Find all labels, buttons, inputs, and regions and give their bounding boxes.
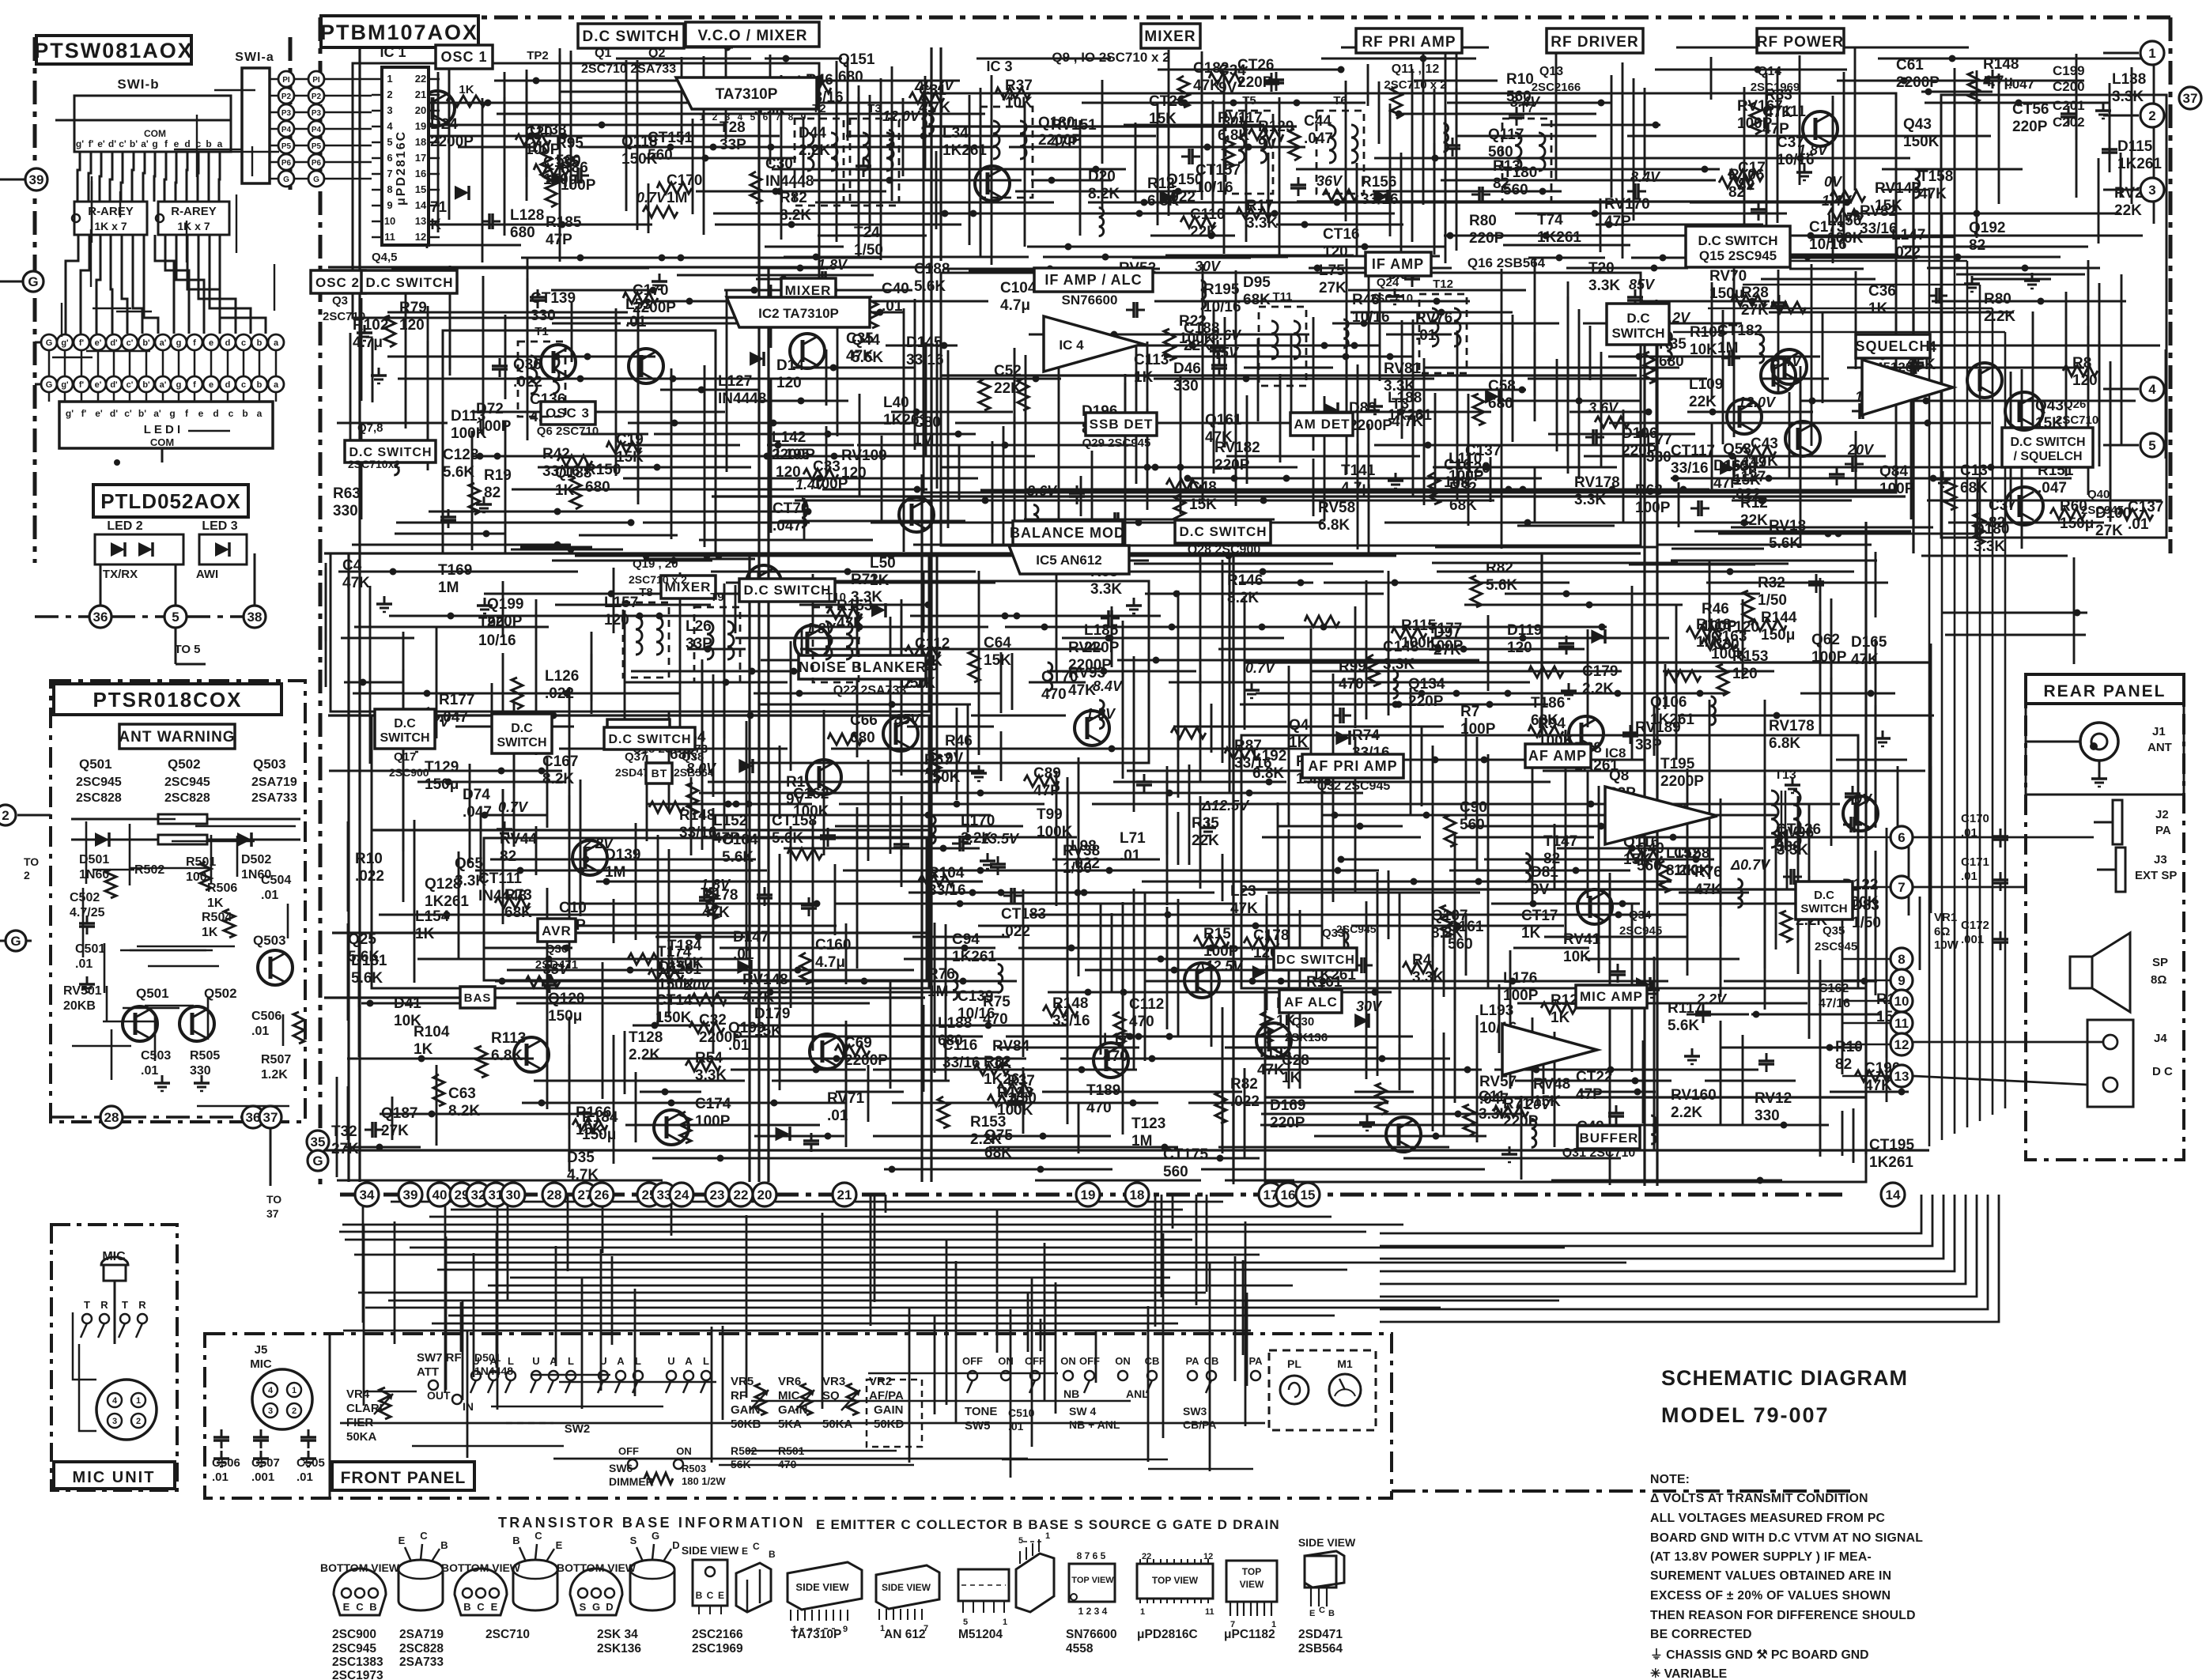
svg-text:2SC900: 2SC900	[389, 766, 429, 779]
svg-text:SIDE VIEW: SIDE VIEW	[882, 1582, 931, 1593]
svg-text:C43: C43	[1751, 436, 1778, 452]
svg-text:1K x 7: 1K x 7	[177, 220, 210, 232]
svg-text:680: 680	[510, 225, 535, 241]
svg-text:MIXER: MIXER	[1144, 28, 1196, 45]
svg-text:470: 470	[1129, 1014, 1154, 1030]
svg-text:TOP VIEW: TOP VIEW	[1152, 1575, 1199, 1586]
svg-text:T10: T10	[825, 591, 846, 604]
svg-text:d': d'	[110, 408, 118, 419]
svg-text:IC5 AN612: IC5 AN612	[1036, 553, 1101, 568]
svg-text:100K: 100K	[1179, 330, 1215, 347]
svg-text:μPD2816C: μPD2816C	[395, 130, 408, 206]
svg-text:Q15 2SC945: Q15 2SC945	[1699, 248, 1777, 263]
svg-text:17: 17	[415, 152, 426, 164]
svg-text:T74: T74	[1537, 212, 1563, 228]
svg-text:GAIN: GAIN	[731, 1403, 761, 1417]
svg-text:1 2 3 4: 1 2 3 4	[1078, 1606, 1108, 1617]
svg-text:12: 12	[1894, 1037, 1909, 1052]
svg-text:4: 4	[268, 1386, 274, 1395]
svg-text:C: C	[535, 1530, 542, 1542]
svg-text:C161: C161	[1448, 919, 1484, 935]
svg-text:C167: C167	[542, 753, 578, 770]
svg-text:7: 7	[1898, 880, 1905, 895]
svg-text:SSB DET: SSB DET	[1090, 417, 1154, 432]
svg-text:T158: T158	[1919, 168, 1953, 185]
svg-text:LED 3: LED 3	[202, 519, 237, 533]
svg-text:3.6V: 3.6V	[1588, 400, 1619, 416]
svg-text:68K: 68K	[504, 904, 532, 921]
svg-text:8.2K: 8.2K	[542, 771, 574, 787]
svg-text:G: G	[10, 934, 21, 949]
svg-text:3: 3	[268, 1406, 273, 1416]
svg-text:100P: 100P	[476, 418, 512, 435]
svg-text:FRONT PANEL: FRONT PANEL	[341, 1469, 467, 1487]
svg-text:150μ: 150μ	[2060, 515, 2094, 532]
svg-text:2.2K: 2.2K	[1984, 308, 2015, 325]
svg-text:SW6: SW6	[609, 1462, 633, 1474]
svg-text:D502: D502	[241, 853, 271, 866]
svg-text:1K: 1K	[207, 897, 224, 910]
svg-text:AM DET: AM DET	[1294, 417, 1350, 432]
svg-text:T9: T9	[710, 591, 724, 604]
svg-text:L40: L40	[883, 395, 909, 411]
svg-text:CT175: CT175	[1163, 1146, 1208, 1163]
svg-text:R82: R82	[780, 190, 807, 206]
svg-text:C199: C199	[2053, 63, 2085, 78]
svg-text:.01: .01	[1120, 848, 1141, 864]
svg-text:6.8K: 6.8K	[1318, 517, 1350, 534]
svg-text:R54: R54	[695, 1050, 723, 1067]
svg-text:2200P: 2200P	[844, 1052, 888, 1069]
svg-text:2SA719: 2SA719	[251, 776, 297, 789]
svg-text:e: e	[209, 380, 213, 390]
svg-text:2SD471: 2SD471	[535, 958, 578, 972]
svg-text:D.C: D.C	[1626, 311, 1649, 326]
svg-text:TOP VIEW: TOP VIEW	[1071, 1576, 1114, 1585]
svg-text:9: 9	[801, 111, 806, 123]
svg-text:Q3: Q3	[332, 294, 348, 308]
svg-text:R144: R144	[1761, 610, 1797, 626]
svg-text:C: C	[420, 1530, 428, 1542]
svg-text:L75: L75	[1319, 262, 1345, 279]
svg-text:5: 5	[172, 610, 179, 625]
svg-text:10K: 10K	[1563, 949, 1591, 965]
svg-text:C174: C174	[695, 1096, 731, 1112]
svg-text:1K261: 1K261	[1537, 229, 1581, 246]
svg-text:PTSW081AOX: PTSW081AOX	[34, 39, 194, 62]
svg-text:P3: P3	[281, 109, 292, 118]
svg-text:12: 12	[415, 231, 426, 243]
svg-text:2SK 34: 2SK 34	[597, 1628, 638, 1641]
svg-text:a': a'	[141, 138, 149, 149]
svg-text:IC 1: IC 1	[380, 44, 406, 60]
svg-text:21: 21	[415, 89, 426, 100]
svg-text:T123: T123	[1131, 1116, 1165, 1132]
svg-text:1.2K: 1.2K	[261, 1068, 288, 1082]
svg-text:6: 6	[763, 111, 769, 123]
svg-text:TRANSISTOR BASE INFORMATIO: TRANSISTOR BASE INFORMATION	[498, 1515, 806, 1531]
svg-text:L193: L193	[1479, 1002, 1513, 1019]
svg-text:Q84: Q84	[1879, 463, 1908, 480]
svg-text:2200P: 2200P	[772, 447, 815, 463]
svg-text:.047: .047	[463, 804, 492, 821]
svg-text:2SC1973: 2SC1973	[332, 1669, 383, 1680]
svg-text:ANL: ANL	[1126, 1387, 1149, 1400]
svg-text:T128: T128	[629, 1029, 663, 1046]
svg-text:BE CORRECTED: BE CORRECTED	[1650, 1628, 1752, 1641]
svg-text:2SC2166: 2SC2166	[1532, 81, 1581, 94]
svg-text:14: 14	[1886, 1187, 1901, 1202]
svg-text:SW 4: SW 4	[1069, 1405, 1096, 1418]
svg-text:NB: NB	[1063, 1387, 1079, 1400]
svg-text:SWITCH: SWITCH	[497, 736, 546, 749]
svg-text:c': c'	[124, 408, 132, 419]
svg-text:2SC2166: 2SC2166	[692, 1628, 743, 1641]
svg-text:PL: PL	[1287, 1357, 1301, 1370]
svg-text:40: 40	[433, 1187, 448, 1202]
svg-text:1K: 1K	[202, 926, 218, 939]
svg-text:3: 3	[112, 1417, 117, 1426]
svg-text:13: 13	[1894, 1069, 1909, 1084]
svg-text:VIEW: VIEW	[1240, 1579, 1264, 1590]
svg-text:C17: C17	[1738, 160, 1766, 176]
svg-text:68K: 68K	[1449, 497, 1477, 514]
svg-text:1.8V: 1.8V	[818, 257, 848, 273]
svg-text:CT22: CT22	[1576, 1069, 1612, 1085]
svg-text:2SC710 x 2: 2SC710 x 2	[1384, 78, 1446, 92]
svg-text:Δ12.5V: Δ12.5V	[1195, 958, 1244, 974]
svg-text:9: 9	[843, 1625, 848, 1634]
svg-text:2SC945: 2SC945	[1336, 923, 1377, 935]
svg-text:a': a'	[160, 338, 167, 348]
svg-text:R80: R80	[1984, 291, 2011, 308]
svg-text:AWI: AWI	[196, 568, 218, 581]
svg-text:Q35: Q35	[1823, 924, 1845, 938]
svg-text:8.2K: 8.2K	[448, 1103, 480, 1119]
svg-text:330: 330	[190, 1064, 211, 1078]
svg-text:d: d	[225, 338, 231, 348]
svg-text:CT16: CT16	[1323, 226, 1359, 243]
svg-text:L128: L128	[510, 207, 544, 224]
svg-text:C104: C104	[1000, 280, 1037, 296]
svg-text:2.2K: 2.2K	[1582, 681, 1614, 697]
svg-text:SWI-b: SWI-b	[117, 77, 159, 92]
svg-text:CT17: CT17	[1521, 908, 1558, 924]
svg-text:f: f	[193, 380, 196, 390]
svg-text:A: A	[685, 1355, 693, 1367]
svg-text:470: 470	[1041, 686, 1067, 703]
svg-text:11: 11	[1205, 1607, 1214, 1617]
svg-text:g: g	[152, 138, 157, 149]
svg-text:1: 1	[1140, 1607, 1145, 1617]
svg-text:COM: COM	[144, 128, 166, 139]
svg-text:2SC710 x 2: 2SC710 x 2	[629, 573, 687, 586]
svg-text:2SA733: 2SA733	[399, 1655, 444, 1669]
svg-text:D: D	[672, 1539, 679, 1551]
svg-text:C110: C110	[1190, 206, 1225, 223]
svg-text:1/50: 1/50	[1758, 592, 1787, 609]
svg-text:0V: 0V	[1824, 174, 1843, 190]
svg-text:R503: R503	[682, 1463, 706, 1474]
svg-text:2: 2	[2, 808, 9, 823]
svg-text:1K261: 1K261	[952, 949, 996, 965]
svg-text:1K: 1K	[1289, 734, 1309, 751]
svg-text:5.6K: 5.6K	[1668, 1017, 1699, 1034]
svg-text:T6: T6	[1333, 94, 1347, 108]
svg-text:EXT SP: EXT SP	[2135, 869, 2177, 882]
svg-text:2: 2	[387, 89, 392, 100]
svg-text:R28: R28	[1741, 285, 1769, 301]
svg-text:10K: 10K	[1690, 342, 1717, 358]
svg-text:2: 2	[292, 1406, 297, 1416]
svg-text:3: 3	[387, 104, 392, 116]
svg-text:RF PRI AMP: RF PRI AMP	[1362, 34, 1456, 51]
svg-text:R13: R13	[1493, 158, 1520, 175]
svg-text:C58: C58	[1488, 378, 1516, 395]
svg-text:Q503: Q503	[253, 933, 286, 948]
svg-text:C179: C179	[1582, 663, 1618, 680]
svg-text:8.4V: 8.4V	[1630, 169, 1661, 185]
svg-text:L: L	[703, 1355, 709, 1367]
svg-text:L138: L138	[2112, 71, 2146, 88]
svg-text:C182: C182	[1193, 60, 1229, 77]
svg-text:150μ: 150μ	[1709, 285, 1743, 302]
svg-text:85V: 85V	[894, 712, 921, 727]
svg-text:8.2K: 8.2K	[1088, 186, 1120, 202]
svg-text:CT56: CT56	[2012, 101, 2049, 118]
svg-text:3.3K: 3.3K	[1090, 581, 1122, 598]
svg-text:8.4V: 8.4V	[1093, 678, 1124, 694]
svg-text:D.C: D.C	[511, 722, 533, 735]
svg-text:.01: .01	[141, 1064, 158, 1078]
svg-text:C160: C160	[815, 937, 851, 953]
svg-text:c': c'	[127, 380, 134, 390]
svg-text:220P: 220P	[1408, 693, 1444, 710]
svg-text:Q6 2SC710: Q6 2SC710	[537, 425, 599, 438]
svg-text:C19: C19	[616, 432, 644, 448]
svg-text:470: 470	[983, 1011, 1008, 1028]
svg-text:1K261: 1K261	[1869, 1154, 1913, 1171]
svg-text:R148: R148	[679, 807, 715, 824]
svg-text:27K: 27K	[1434, 642, 1461, 659]
svg-text:R148: R148	[1983, 56, 2019, 73]
svg-text:Q16 2SB564: Q16 2SB564	[1468, 255, 1546, 270]
svg-text:5: 5	[963, 1618, 968, 1627]
svg-text:D.C SWITCH: D.C SWITCH	[1698, 233, 1777, 248]
svg-text:34: 34	[360, 1187, 375, 1202]
svg-text:R177: R177	[439, 692, 474, 708]
svg-text:330: 330	[1755, 1108, 1780, 1124]
svg-text:Δ VOLTS AT TRANSMIT CONDITION: Δ VOLTS AT TRANSMIT CONDITION	[1650, 1492, 1868, 1505]
svg-text:T195: T195	[1660, 756, 1695, 772]
svg-text:OUT: OUT	[427, 1389, 451, 1402]
svg-text:21: 21	[837, 1187, 852, 1202]
svg-text:220P: 220P	[487, 613, 523, 630]
svg-text:ATT: ATT	[417, 1365, 439, 1379]
svg-text:Δ0.7V: Δ0.7V	[1730, 857, 1771, 873]
svg-text:D.C SWITCH: D.C SWITCH	[583, 28, 680, 45]
svg-text:3.3K: 3.3K	[695, 1067, 727, 1084]
svg-text:D.C SWITCH: D.C SWITCH	[1179, 524, 1267, 539]
svg-text:3.3K: 3.3K	[2112, 89, 2144, 105]
svg-text:470: 470	[1339, 676, 1364, 693]
svg-text:.01: .01	[75, 957, 93, 971]
svg-text:IC 4: IC 4	[1059, 338, 1084, 353]
svg-text:C170: C170	[667, 172, 702, 189]
svg-text:TO 5: TO 5	[174, 643, 200, 656]
svg-text:f': f'	[79, 338, 85, 348]
svg-text:D.C SWITCH: D.C SWITCH	[365, 275, 453, 290]
svg-text:E: E	[556, 1539, 563, 1551]
svg-text:5: 5	[2148, 438, 2155, 453]
svg-text:100P: 100P	[561, 177, 596, 194]
svg-text:GAIN: GAIN	[874, 1403, 904, 1417]
svg-text:R19: R19	[484, 467, 512, 484]
svg-text:20V: 20V	[1847, 442, 1875, 458]
svg-text:2SC945: 2SC945	[332, 1642, 376, 1655]
svg-text:27K: 27K	[381, 1123, 409, 1139]
svg-text:L71: L71	[1120, 830, 1146, 847]
svg-text:9V: 9V	[945, 750, 964, 767]
svg-text:Q43: Q43	[1903, 116, 1932, 133]
svg-text:1: 1	[1045, 1531, 1050, 1541]
svg-text:100P: 100P	[1503, 987, 1539, 1004]
svg-text:220P: 220P	[1469, 230, 1505, 247]
svg-text:2SC1969: 2SC1969	[1751, 81, 1800, 94]
svg-text:C504: C504	[261, 874, 291, 887]
svg-text:330: 330	[333, 503, 358, 519]
svg-text:AN 612: AN 612	[884, 1628, 926, 1641]
svg-text:220P: 220P	[1214, 457, 1250, 474]
svg-text:D20: D20	[1088, 168, 1116, 185]
svg-text:2.2K: 2.2K	[1671, 1104, 1702, 1121]
svg-text:R113: R113	[491, 1030, 526, 1047]
svg-text:R8: R8	[2072, 355, 2091, 372]
svg-text:47K: 47K	[846, 348, 874, 364]
svg-text:T174: T174	[657, 944, 692, 961]
svg-text:1.8V: 1.8V	[1798, 142, 1829, 158]
svg-text:150K: 150K	[658, 976, 694, 993]
svg-text:27K: 27K	[1319, 280, 1347, 296]
svg-text:120: 120	[776, 375, 802, 391]
svg-text:ANT WARNING: ANT WARNING	[119, 729, 235, 746]
svg-text:220P: 220P	[1503, 1113, 1539, 1130]
svg-text:.01: .01	[251, 1025, 269, 1038]
svg-text:6.8K: 6.8K	[491, 1048, 523, 1064]
svg-text:2200P: 2200P	[1349, 417, 1392, 434]
svg-text:DC SWITCH: DC SWITCH	[1276, 953, 1355, 967]
svg-text:Q30: Q30	[1292, 1015, 1314, 1029]
svg-text:PA: PA	[2155, 824, 2171, 837]
svg-text:2SC828: 2SC828	[76, 791, 122, 805]
svg-text:1K261: 1K261	[2117, 156, 2162, 172]
svg-text:28: 28	[547, 1187, 562, 1202]
svg-text:2SC1969: 2SC1969	[692, 1642, 743, 1655]
svg-text:9: 9	[1898, 973, 1905, 988]
svg-text:Q11 , 12: Q11 , 12	[1392, 62, 1440, 76]
svg-text:M1: M1	[1337, 1357, 1353, 1370]
svg-text:R87: R87	[1234, 738, 1262, 754]
svg-text:.01: .01	[2128, 516, 2149, 533]
svg-text:AF PRI AMP: AF PRI AMP	[1308, 758, 1397, 774]
svg-text:BAS: BAS	[464, 991, 492, 1005]
svg-text:3.3K: 3.3K	[1574, 492, 1606, 508]
svg-text:15: 15	[1301, 1187, 1316, 1202]
svg-text:2SB564: 2SB564	[1298, 1642, 1343, 1655]
svg-text:12.0V: 12.0V	[1738, 395, 1777, 410]
svg-text:5.6K: 5.6K	[443, 464, 474, 481]
svg-text:C: C	[1319, 1606, 1325, 1615]
svg-text:g': g'	[61, 338, 69, 348]
svg-text:R115: R115	[1401, 617, 1437, 634]
svg-text:Q134: Q134	[1408, 676, 1445, 693]
svg-text:150μ: 150μ	[548, 1008, 582, 1025]
svg-text:D501: D501	[79, 853, 109, 866]
svg-text:33/16: 33/16	[1234, 755, 1272, 772]
svg-text:560: 560	[1163, 1164, 1188, 1180]
svg-text:5.6K: 5.6K	[1769, 535, 1800, 552]
svg-text:RV71: RV71	[827, 1090, 865, 1107]
svg-text:22K: 22K	[994, 380, 1022, 397]
svg-text:Q187: Q187	[381, 1105, 417, 1122]
svg-text:R195: R195	[1203, 281, 1240, 298]
svg-text:BALANCE MOD: BALANCE MOD	[1010, 525, 1125, 541]
svg-text:T13: T13	[1774, 768, 1796, 782]
svg-text:100K: 100K	[1674, 863, 1710, 879]
svg-text:C171: C171	[1961, 855, 1989, 869]
svg-text:2SC710: 2SC710	[1370, 292, 1413, 305]
svg-text:120: 120	[2072, 372, 2098, 389]
svg-text:T5: T5	[1242, 94, 1256, 108]
svg-text:D35: D35	[567, 1150, 595, 1166]
svg-text:f': f'	[79, 380, 85, 390]
svg-text:100P: 100P	[695, 1113, 731, 1130]
svg-text:1K: 1K	[1521, 925, 1541, 942]
svg-text:22: 22	[734, 1187, 749, 1202]
svg-text:10K: 10K	[394, 1013, 421, 1029]
svg-text:Q65: Q65	[455, 855, 483, 872]
svg-text:Q501: Q501	[136, 986, 169, 1001]
svg-text:f: f	[193, 338, 196, 348]
svg-text:C170: C170	[1961, 812, 1989, 825]
svg-text:68K: 68K	[1243, 292, 1271, 308]
svg-text:13: 13	[415, 215, 426, 227]
svg-text:D165: D165	[1851, 634, 1887, 651]
svg-text:C35: C35	[846, 330, 874, 347]
svg-text:22K: 22K	[1190, 224, 1218, 240]
svg-text:1M: 1M	[1696, 634, 1717, 651]
svg-text:Q106: Q106	[1650, 694, 1687, 711]
svg-text:μPC1182: μPC1182	[1224, 1628, 1275, 1641]
svg-text:220P: 220P	[1622, 443, 1657, 459]
svg-text:33P: 33P	[686, 636, 712, 652]
svg-text:47K: 47K	[1765, 104, 1792, 121]
svg-text:10: 10	[1894, 994, 1909, 1009]
svg-text:OFF: OFF	[1025, 1355, 1045, 1367]
svg-text:.01: .01	[625, 314, 647, 330]
svg-text:NOISE BLANKER: NOISE BLANKER	[799, 659, 927, 675]
svg-text:BUFFER: BUFFER	[1580, 1131, 1639, 1146]
svg-text:12.0V: 12.0V	[882, 108, 921, 124]
svg-text:SIDE VIEW: SIDE VIEW	[1298, 1536, 1356, 1549]
svg-text:3.3K: 3.3K	[1383, 656, 1415, 673]
svg-text:b: b	[257, 380, 263, 390]
svg-text:680: 680	[585, 479, 610, 496]
svg-text:SUREMENT VALUES OBTAINED AR: SUREMENT VALUES OBTAINED ARE IN	[1650, 1569, 1891, 1583]
svg-text:D72: D72	[476, 401, 504, 417]
svg-text:L152: L152	[713, 813, 747, 829]
svg-text:d': d'	[108, 138, 116, 149]
